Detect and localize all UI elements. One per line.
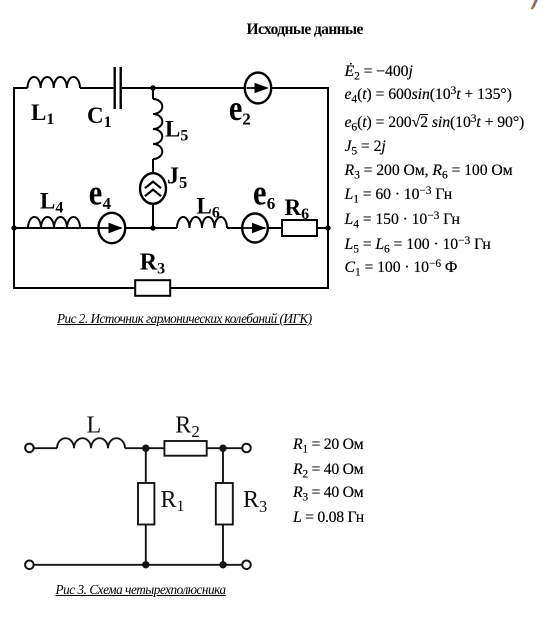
label e2 bbox=[229, 88, 251, 129]
label R3 (two-port) bbox=[243, 487, 267, 516]
node: top junction bbox=[150, 85, 155, 90]
svg-text:6: 6 bbox=[267, 194, 276, 213]
value line 4 bbox=[293, 510, 364, 526]
svg-text:e: e bbox=[229, 88, 243, 128]
wire: circuit1 right vertical bbox=[327, 87, 329, 289]
source e2 bbox=[245, 73, 271, 104]
wire: bottom rail bbox=[34, 564, 243, 566]
wire: R3 branch upper bbox=[222, 448, 224, 483]
wire: R1 branch upper bbox=[145, 448, 147, 483]
equation line 8 bbox=[345, 237, 491, 253]
wire: middle left bbox=[13, 227, 177, 229]
resistor R6 bbox=[282, 220, 317, 236]
inductor L6 bbox=[177, 217, 227, 228]
label e6 bbox=[253, 173, 275, 213]
wire: R3 branch lower bbox=[222, 525, 224, 566]
svg-text:L4: L4 bbox=[40, 189, 63, 217]
label L4 bbox=[40, 189, 63, 217]
wire: circuit1 top segment left bbox=[13, 87, 28, 89]
equation line 6 bbox=[345, 187, 453, 203]
svg-text:L6: L6 bbox=[197, 194, 220, 222]
value line 1 bbox=[293, 437, 363, 453]
resistor R3 bbox=[135, 280, 170, 296]
title bbox=[247, 22, 363, 38]
wire: L1 to C1 bbox=[80, 87, 113, 89]
wire: junction down to L5 bbox=[152, 88, 154, 99]
svg-text:4: 4 bbox=[103, 194, 112, 213]
svg-text:R6: R6 bbox=[285, 195, 310, 223]
label L (two-port) bbox=[87, 413, 102, 439]
svg-text:2: 2 bbox=[242, 110, 251, 129]
svg-text:J5: J5 bbox=[167, 164, 187, 192]
wire: L5 to J5 bbox=[152, 159, 154, 174]
svg-text:R3: R3 bbox=[140, 250, 165, 278]
caption figure 2 bbox=[57, 312, 312, 325]
caption figure 3 bbox=[56, 583, 226, 596]
node: middle-left junction bbox=[11, 225, 16, 230]
resistor R2 bbox=[164, 441, 206, 456]
label J5 bbox=[167, 164, 187, 192]
wire: node1 to node2 bbox=[146, 447, 223, 449]
terminal: bottom-right bbox=[242, 561, 251, 570]
capacitor C1 bbox=[115, 67, 121, 109]
value line 3 bbox=[293, 485, 363, 501]
svg-text:R3: R3 bbox=[243, 487, 267, 516]
svg-text:L: L bbox=[87, 413, 102, 439]
node: middle-right junction bbox=[325, 225, 330, 230]
label R3 bbox=[140, 250, 165, 278]
label L6 bbox=[197, 194, 220, 222]
inductor L4 bbox=[28, 217, 80, 228]
equation line 5 bbox=[345, 163, 513, 179]
source e4 bbox=[98, 213, 125, 243]
terminal: top-left bbox=[25, 444, 34, 453]
equation line 9 bbox=[345, 260, 458, 276]
wire: node2 to top-right terminal bbox=[223, 447, 242, 449]
node: dot1 bbox=[142, 445, 149, 452]
wire: circuit1 bottom bbox=[13, 287, 329, 289]
resistor R3 (two-port) bbox=[216, 483, 233, 525]
terminal: bottom-left bbox=[25, 561, 34, 570]
node: dot3 bbox=[142, 561, 149, 568]
wire: R1 branch lower bbox=[145, 525, 147, 566]
label C1 bbox=[87, 103, 112, 131]
current source J5 bbox=[140, 173, 166, 204]
wire: C1 to top-right corner bbox=[122, 87, 329, 89]
equation line 7 bbox=[345, 212, 460, 228]
node: middle junction bbox=[150, 225, 155, 230]
svg-text:L5: L5 bbox=[165, 117, 188, 145]
inductor L (two-port) bbox=[57, 438, 125, 448]
svg-text:L1: L1 bbox=[31, 100, 54, 128]
wire: J5 to middle wire bbox=[152, 204, 154, 229]
value line 2 bbox=[293, 462, 363, 478]
label R2 bbox=[175, 413, 200, 442]
label R6 bbox=[285, 195, 310, 223]
svg-text:R2: R2 bbox=[175, 413, 200, 442]
node: dot4 bbox=[219, 561, 226, 568]
wire: circuit1 left vertical bbox=[13, 87, 15, 289]
inductor L5 bbox=[153, 99, 162, 159]
equation line 3 bbox=[345, 114, 525, 131]
svg-text:e: e bbox=[253, 173, 267, 213]
svg-text:C1: C1 bbox=[87, 103, 112, 131]
equation line 2 bbox=[345, 87, 512, 103]
wire: terminal to L coil bbox=[34, 447, 57, 449]
inductor L1 bbox=[28, 77, 80, 88]
wire: L coil to node1 bbox=[125, 447, 146, 449]
svg-text:R1: R1 bbox=[161, 487, 185, 515]
label R1 bbox=[161, 487, 185, 515]
equation line 1 bbox=[345, 64, 413, 80]
svg-text:e: e bbox=[89, 173, 103, 213]
annotation: pen slash top-right bbox=[532, 0, 538, 9]
label e4 bbox=[89, 173, 112, 213]
node: dot2 bbox=[219, 445, 226, 452]
label L1 bbox=[31, 100, 54, 128]
terminal: top-right bbox=[242, 444, 251, 453]
resistor R1 bbox=[138, 483, 154, 525]
source e6 bbox=[242, 214, 268, 243]
wire: L6 to right bbox=[227, 227, 329, 229]
equation line 4 bbox=[345, 139, 386, 155]
label L5 bbox=[165, 117, 188, 145]
